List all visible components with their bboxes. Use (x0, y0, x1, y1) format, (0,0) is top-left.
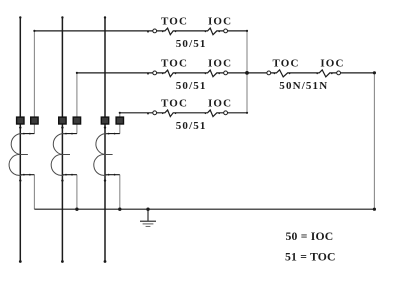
svg-text:IOC: IOC (320, 57, 344, 69)
svg-text:TOC: TOC (161, 15, 188, 27)
svg-text:TOC: TOC (272, 57, 299, 69)
svg-text:IOC: IOC (208, 97, 232, 109)
svg-text:50 = IOC: 50 = IOC (286, 230, 334, 243)
svg-text:TOC: TOC (161, 97, 188, 109)
svg-text:51 = TOC: 51 = TOC (285, 251, 336, 264)
svg-text:IOC: IOC (208, 15, 232, 27)
svg-text:50N/51N: 50N/51N (279, 80, 328, 92)
svg-text:TOC: TOC (161, 57, 188, 69)
svg-text:50/51: 50/51 (176, 80, 207, 92)
svg-text:IOC: IOC (208, 57, 232, 69)
svg-text:50/51: 50/51 (176, 120, 207, 132)
svg-text:50/51: 50/51 (176, 38, 207, 50)
